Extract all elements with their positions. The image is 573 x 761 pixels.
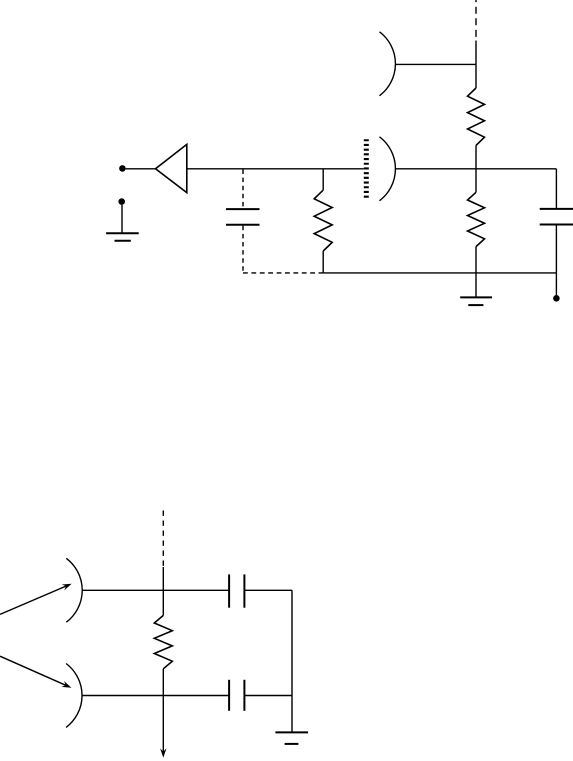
wire (ground stem) — [475, 273, 477, 298]
capacitor C2 plates — [540, 209, 573, 225]
dashed supply line (top, node B+) — [475, 0, 477, 41]
wire (right rail down to C2) — [555, 169, 557, 208]
dashed line (heater supply, top) — [162, 511, 164, 567]
capacitor C1 dashed top lead — [242, 170, 244, 209]
wire (C2 to bottom rail) — [555, 226, 557, 273]
wire (right rail down) — [291, 590, 293, 732]
wire (buffer to grid) — [187, 168, 364, 170]
plate arc (lower filament element) — [66, 664, 82, 728]
capacitor C1 dashed bottom lead — [242, 226, 244, 273]
dashed wire (C1 to R2 bottom node) — [243, 272, 323, 274]
wire (bottom lead of R2) — [322, 251, 324, 273]
wire (bottom lead of R3) — [475, 247, 477, 273]
wire (plate to supply node) — [396, 63, 476, 65]
resistor R3 (cathode resistor) — [468, 192, 485, 246]
capacitor C3 plates — [229, 574, 244, 607]
resistor R2 (grid leak) — [314, 190, 332, 251]
ground terminal dot — [118, 198, 125, 205]
wire (stub to output terminal) — [555, 273, 557, 295]
arrow (pointer to upper element) — [0, 584, 72, 615]
grid G1 (dashed thick grid line) — [364, 139, 369, 198]
wire (input terminal to buffer) — [126, 168, 156, 170]
wire (top lead of R3) — [475, 169, 477, 193]
node IN terminal dot — [119, 165, 126, 172]
wire (top lead of R2) — [322, 169, 324, 190]
wire (R1 bottom lead to output line) — [475, 145, 477, 168]
wire (R4 bottom lead) — [162, 669, 164, 696]
ground (left input ground) — [106, 233, 139, 241]
op-amp U1 (buffer triangle) — [156, 144, 187, 192]
capacitor C1 plates — [226, 209, 260, 225]
capacitor C4 plates — [229, 680, 244, 711]
wire (bottom rail) — [323, 272, 556, 274]
wire (upper element to C3) — [83, 589, 230, 591]
wire (lower element to C4) — [82, 695, 229, 697]
wire (cathode to right rail) — [396, 168, 557, 170]
wire (terminal down to ground) — [121, 205, 123, 233]
plate arc (upper filament element) — [66, 558, 82, 622]
wire (C3 to right rail) — [244, 589, 292, 591]
resistor R4 (hum balance) — [154, 615, 172, 668]
cathode arc (lower tube element) — [380, 137, 396, 201]
plate arc (upper tube plate) — [380, 32, 396, 96]
wire (C4 to right rail) — [244, 695, 292, 697]
arrow (pointer to lower element) — [0, 656, 71, 688]
wire (supply lead down to plate wire and resistor) — [475, 41, 477, 89]
ground (bottom rail ground) — [460, 297, 492, 305]
ground (right rail ground) — [275, 732, 308, 744]
wire (solid continuation down to R4) — [162, 567, 164, 615]
arrow (center tap down) — [160, 696, 166, 758]
node OUT terminal dot — [553, 295, 560, 302]
resistor R1 (plate load) — [468, 88, 485, 145]
